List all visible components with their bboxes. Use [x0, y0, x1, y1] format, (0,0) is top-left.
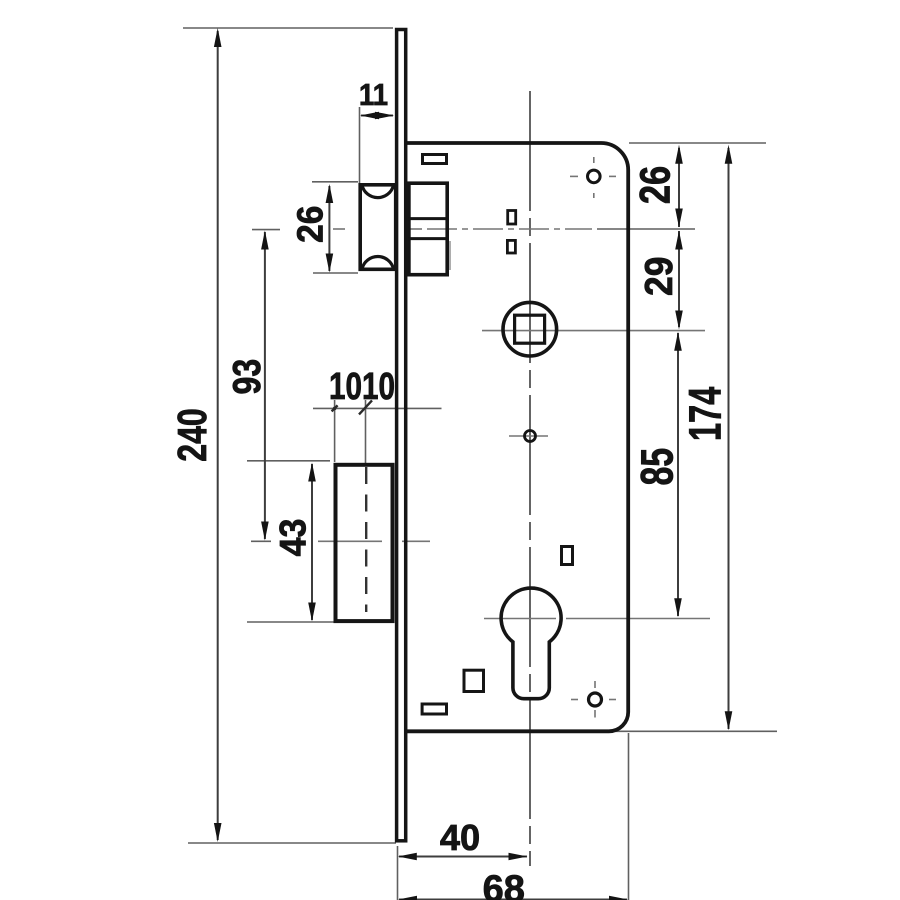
svg-text:26: 26 — [632, 166, 679, 204]
svg-text:68: 68 — [483, 869, 525, 900]
svg-text:93: 93 — [225, 359, 269, 395]
svg-text:85: 85 — [633, 448, 683, 486]
svg-text:40: 40 — [440, 817, 480, 858]
svg-text:29: 29 — [637, 257, 681, 296]
svg-text:1010: 1010 — [329, 366, 395, 408]
svg-text:43: 43 — [272, 519, 314, 557]
svg-text:11: 11 — [359, 79, 388, 113]
svg-text:240: 240 — [169, 408, 214, 462]
svg-text:174: 174 — [680, 387, 730, 441]
svg-text:26: 26 — [290, 206, 331, 243]
